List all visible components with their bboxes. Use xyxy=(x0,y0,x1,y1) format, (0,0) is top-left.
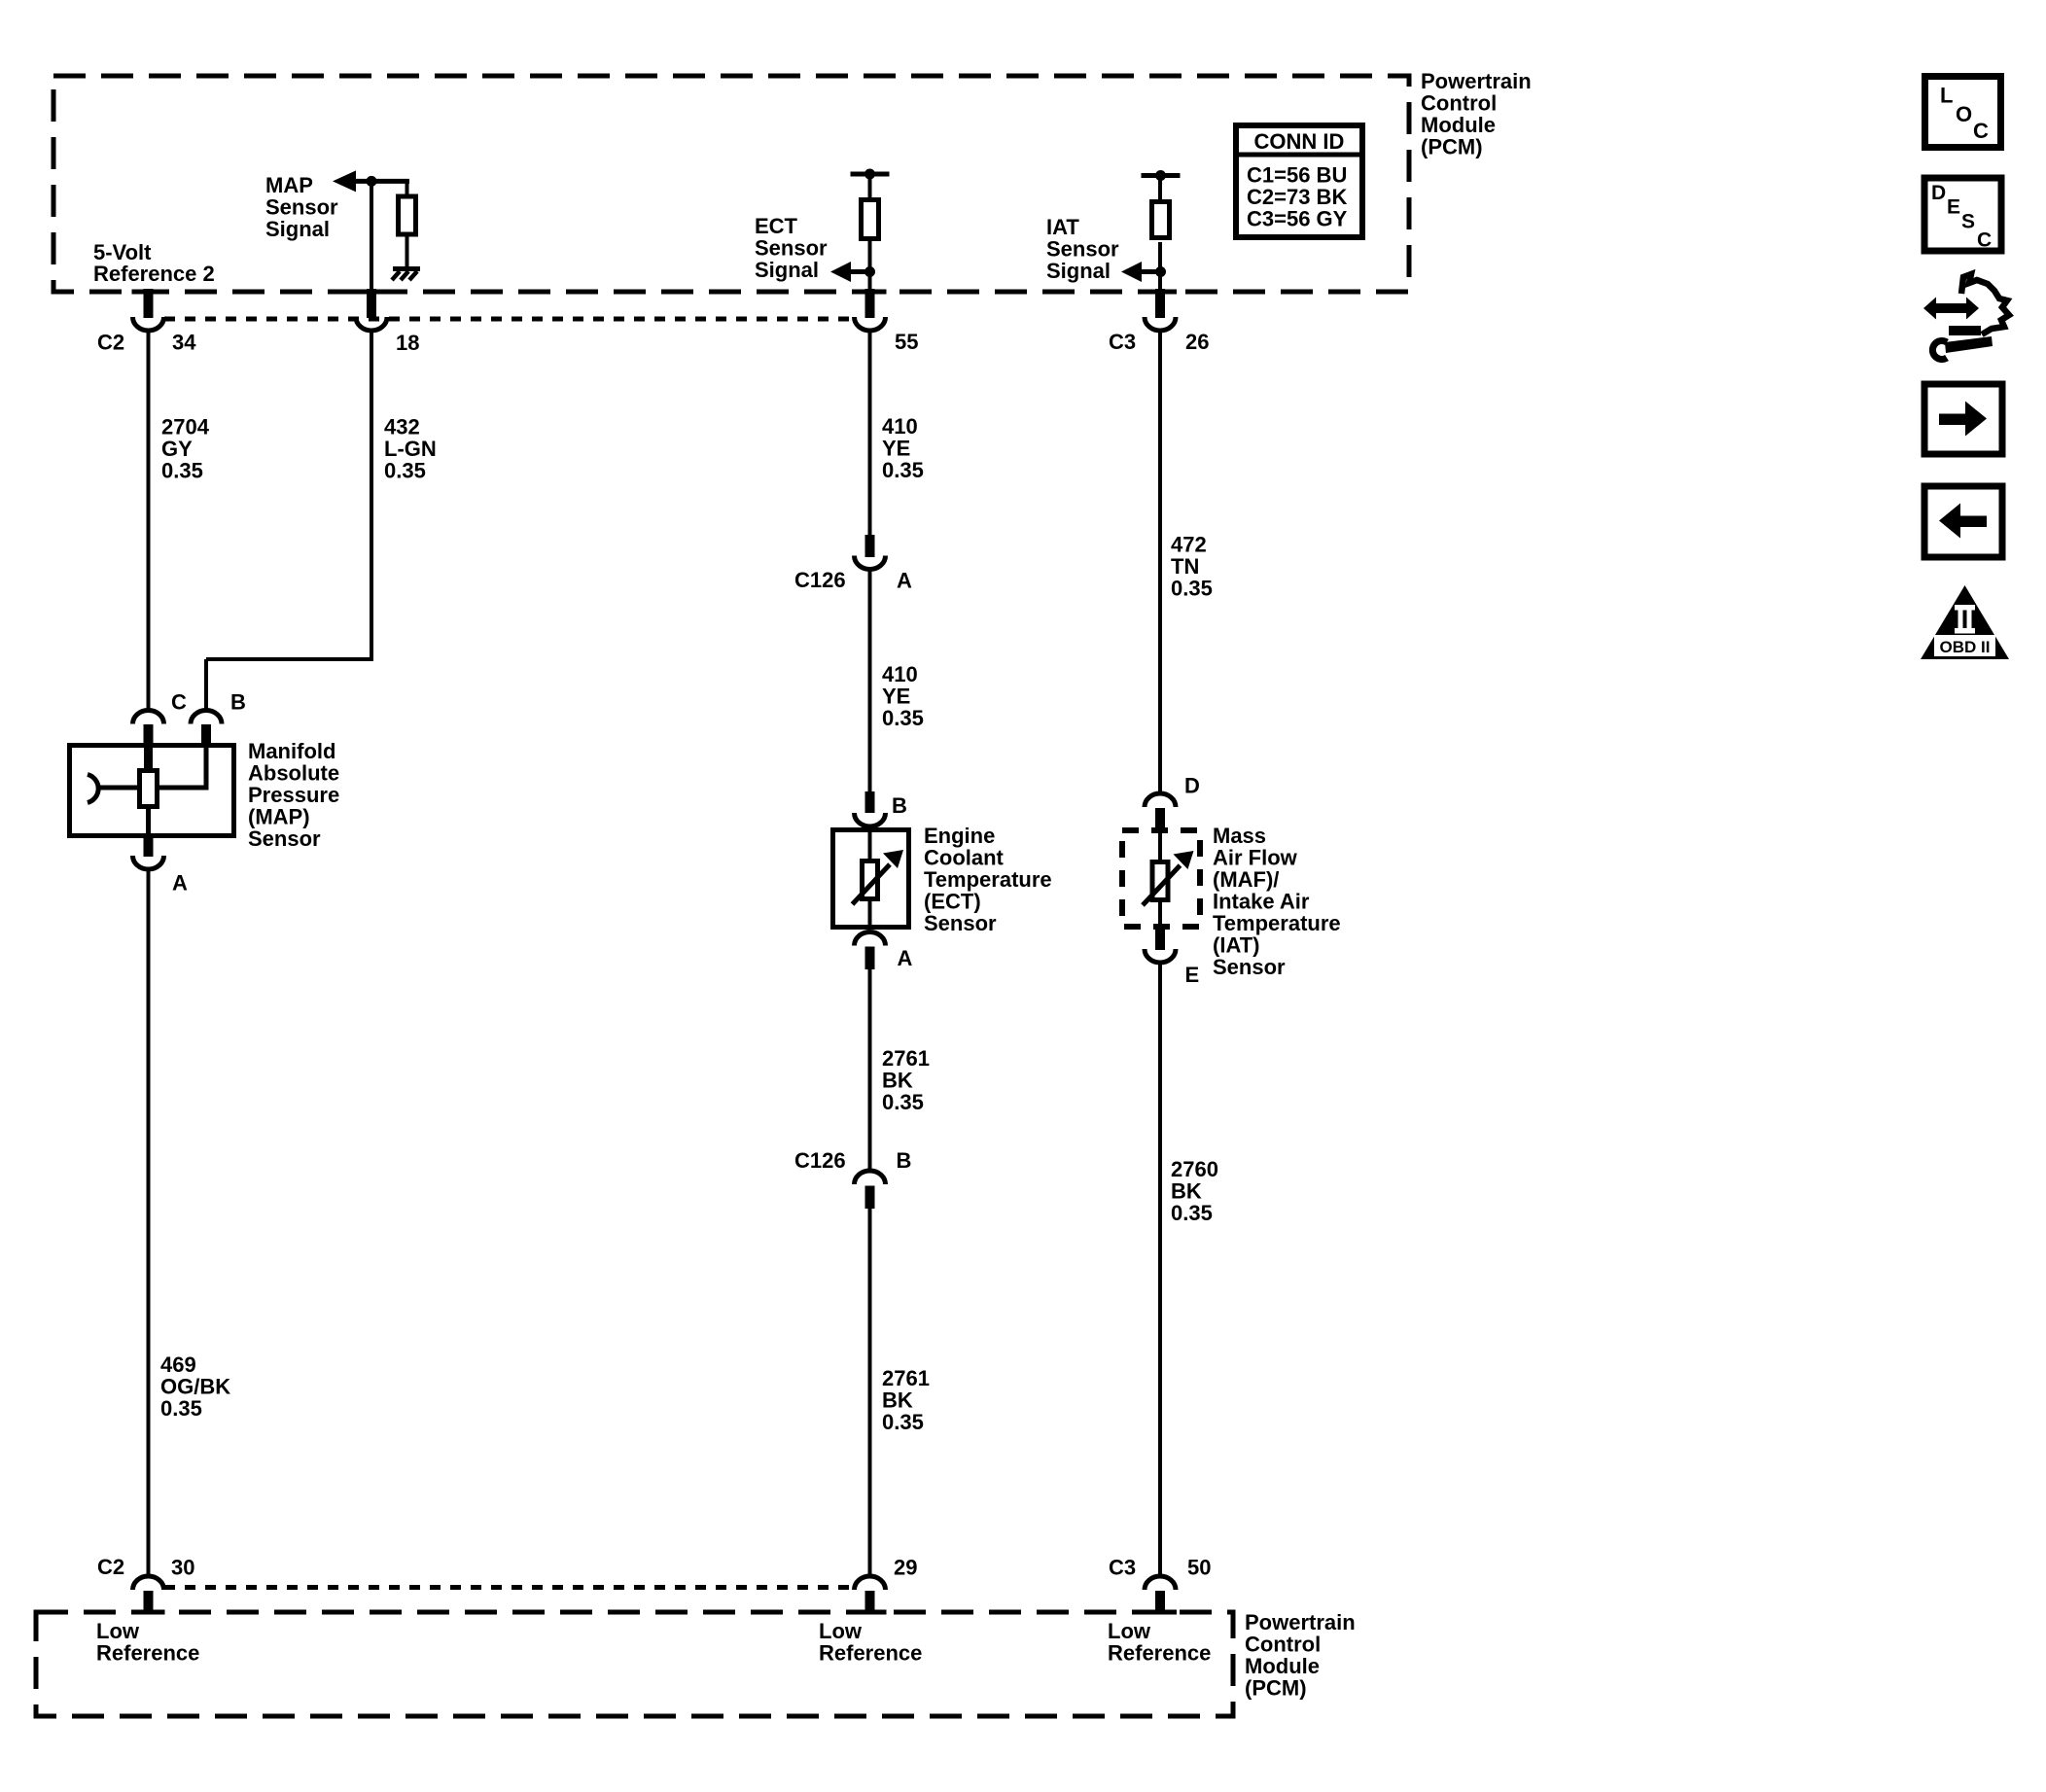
wire 469 OG/BK: MAP pin A down to PCM pin 30 xyxy=(147,869,151,1576)
wire: resistor to ground xyxy=(406,237,409,268)
svg-text:Sensor: Sensor xyxy=(924,911,997,935)
arrow: ECT Sensor Signal (points left) xyxy=(830,262,851,282)
resistor: MAP internal element xyxy=(140,771,158,807)
svg-text:Signal: Signal xyxy=(1046,259,1111,283)
wire: ECT internal T-bar inside PCM xyxy=(851,172,890,177)
svg-text:Reference: Reference xyxy=(1108,1641,1211,1666)
svg-text:C2: C2 xyxy=(97,331,124,355)
connector: MAP pin A (pin + cup) xyxy=(144,838,154,857)
svg-text:D: D xyxy=(1184,774,1200,798)
wire 2704 GY: pin 34 down to MAP sensor pin C xyxy=(147,331,151,710)
svg-text:C: C xyxy=(1977,229,1992,252)
svg-text:Reference: Reference xyxy=(819,1641,922,1666)
svg-text:(MAF)/: (MAF)/ xyxy=(1213,867,1279,892)
pin at PCM top x=1193 xyxy=(1155,289,1165,318)
wire: crescent to MAP internal resistor xyxy=(100,786,139,791)
wire: MAP signal horizontal inside PCM xyxy=(354,179,409,184)
resistor: ECT pull-up inside PCM xyxy=(862,200,879,239)
icon: OBD II triangle xyxy=(1921,585,2009,659)
svg-text:Manifold: Manifold xyxy=(248,739,335,763)
connector: IAT pin D (arch + pin) xyxy=(1145,793,1176,807)
svg-text:410: 410 xyxy=(882,414,918,439)
svg-text:Powertrain: Powertrain xyxy=(1245,1610,1356,1634)
svg-text:472: 472 xyxy=(1171,533,1207,557)
wire: IAT internal T-bar inside PCM xyxy=(1142,173,1181,178)
wire: MAP pin B branch inside box xyxy=(204,743,209,788)
wire: thermistor to IAT pin E xyxy=(1158,902,1162,931)
svg-text:Control: Control xyxy=(1421,91,1497,116)
svg-text:0.35: 0.35 xyxy=(160,1396,202,1421)
svg-text:YE: YE xyxy=(882,685,910,709)
svg-text:Sensor: Sensor xyxy=(265,195,338,220)
junction dot at ECT signal xyxy=(864,266,875,277)
svg-text:Low: Low xyxy=(819,1619,863,1643)
svg-text:410: 410 xyxy=(882,662,918,686)
icon: right-arrow box xyxy=(1924,384,2002,454)
wire: corner down to pull-up resistor xyxy=(406,181,409,195)
icon: service tool (wrench with arrows) xyxy=(1923,274,2009,359)
svg-text:D: D xyxy=(1931,182,1946,204)
ECT sensor box (Engine Coolant Temperature Sensor) xyxy=(833,830,909,928)
pin at PCM top x=894.5 xyxy=(865,289,875,318)
wire: IAT arrow line xyxy=(1140,269,1160,274)
svg-text:GY: GY xyxy=(161,437,193,461)
pin at PCM top x=152.5 xyxy=(144,289,154,318)
svg-text:B: B xyxy=(892,793,907,818)
CONN ID table xyxy=(1236,125,1362,237)
svg-text:E: E xyxy=(1947,196,1960,219)
svg-text:26: 26 xyxy=(1185,330,1209,354)
svg-text:Air Flow: Air Flow xyxy=(1213,846,1298,870)
wire: pin 18 wire from junction down to PCM border xyxy=(370,181,373,292)
thermistor: ECT sensing element xyxy=(863,861,878,899)
svg-text:Control: Control xyxy=(1245,1633,1321,1657)
border dashes at pin crossings (top PCM) xyxy=(132,290,165,295)
svg-text:B: B xyxy=(230,690,246,715)
icon: DESC box xyxy=(1924,178,2001,252)
wire: MAP resistor to pin A xyxy=(146,808,151,838)
svg-text:CONN ID: CONN ID xyxy=(1254,129,1345,154)
resistor: MAP pull-up inside PCM xyxy=(399,196,416,234)
connector: IAT pin E (pin + cup) xyxy=(1155,930,1165,950)
svg-text:55: 55 xyxy=(895,330,918,354)
svg-text:Temperature: Temperature xyxy=(1213,911,1341,935)
PCM module box (Powertrain Control Module, top) xyxy=(53,76,1409,292)
junction dot at IAT signal xyxy=(1155,266,1166,277)
pin at PCM top x=382 xyxy=(367,289,376,318)
connector: MAP pin C (arch) xyxy=(133,711,164,724)
svg-text:0.35: 0.35 xyxy=(882,458,924,482)
svg-text:Engine: Engine xyxy=(924,824,995,848)
svg-text:Intake Air: Intake Air xyxy=(1213,890,1310,914)
resistor: IAT pull-up inside PCM xyxy=(1152,202,1170,238)
wire: inside IAT box, pin D to thermistor xyxy=(1158,829,1162,861)
svg-text:C2: C2 xyxy=(97,1555,124,1579)
wire 410 YE: pin 55 down to C126 A xyxy=(868,331,872,536)
wire: ECT arrow line xyxy=(849,269,870,274)
svg-text:C: C xyxy=(1973,119,1989,143)
svg-text:(PCM): (PCM) xyxy=(1245,1676,1307,1701)
svg-text:C3: C3 xyxy=(1109,330,1136,354)
icon: left-arrow box xyxy=(1924,486,2002,557)
svg-text:50: 50 xyxy=(1187,1556,1211,1580)
svg-text:29: 29 xyxy=(894,1556,917,1580)
wire 410 YE: C126 A down to ECT sensor pin B xyxy=(868,569,872,792)
svg-text:30: 30 xyxy=(171,1556,194,1580)
svg-text:0.35: 0.35 xyxy=(1171,1201,1213,1225)
junction dot on ECT T-bar xyxy=(864,169,875,180)
icon: LOC box xyxy=(1925,77,2001,148)
ground symbol (chassis ground) xyxy=(392,269,420,281)
svg-text:Low: Low xyxy=(1108,1619,1151,1643)
wire 2761 BK: C126 B down to PCM pin 29 xyxy=(868,1209,872,1576)
svg-text:2704: 2704 xyxy=(161,415,210,439)
MAP internal pressure transducer (crescent) xyxy=(88,775,98,803)
svg-text:BK: BK xyxy=(1171,1179,1202,1204)
wire: IAT junction to pin 26 xyxy=(1158,272,1162,293)
svg-text:Pressure: Pressure xyxy=(248,783,339,807)
svg-text:Coolant: Coolant xyxy=(924,846,1005,870)
PCM module box (Powertrain Control Module, bottom) xyxy=(36,1612,1233,1716)
svg-text:C: C xyxy=(171,690,187,715)
connector C126 pin B (arch + pin) xyxy=(855,1171,886,1184)
connector C2 dotted line (top) xyxy=(164,317,854,322)
pin at PCM bottom x=1193 (arch + pin) xyxy=(1145,1576,1176,1590)
svg-text:Reference: Reference xyxy=(96,1641,199,1666)
junction dot on IAT T-bar xyxy=(1155,170,1166,181)
svg-text:C3=56 GY: C3=56 GY xyxy=(1247,207,1348,231)
svg-text:0.35: 0.35 xyxy=(161,459,203,483)
border dashes at pin crossings (bottom PCM) xyxy=(132,1610,165,1615)
wire: T-bar to IAT pull-up resistor xyxy=(1158,176,1162,201)
svg-text:34: 34 xyxy=(172,331,196,355)
svg-text:BK: BK xyxy=(882,1069,913,1093)
svg-text:Mass: Mass xyxy=(1213,824,1266,848)
svg-text:(IAT): (IAT) xyxy=(1213,933,1259,958)
svg-text:Module: Module xyxy=(1421,113,1496,137)
svg-text:C3: C3 xyxy=(1109,1556,1136,1580)
wire: ECT resistor to junction xyxy=(868,241,872,272)
svg-text:2761: 2761 xyxy=(882,1366,930,1390)
svg-text:O: O xyxy=(1956,102,1972,126)
svg-text:A: A xyxy=(898,946,913,970)
svg-text:MAP: MAP xyxy=(265,173,313,197)
svg-text:OG/BK: OG/BK xyxy=(160,1375,230,1399)
svg-text:Reference 2: Reference 2 xyxy=(93,262,215,286)
svg-text:(MAP): (MAP) xyxy=(248,805,310,829)
pin at PCM bottom x=894.5 (arch + pin) xyxy=(855,1576,886,1590)
svg-text:C126: C126 xyxy=(794,568,846,592)
svg-text:IAT: IAT xyxy=(1046,215,1079,239)
arrow: IAT Sensor Signal (points left) xyxy=(1121,262,1142,282)
svg-text:2761: 2761 xyxy=(882,1046,930,1071)
pin at PCM bottom x=152.5 (arch + pin) xyxy=(133,1576,164,1590)
svg-text:C126: C126 xyxy=(794,1148,846,1173)
wire 2760 BK: IAT pin E down to PCM pin 50 xyxy=(1158,963,1162,1576)
svg-text:YE: YE xyxy=(882,437,910,461)
svg-text:2760: 2760 xyxy=(1171,1157,1218,1181)
wire: ECT junction to pin 55 xyxy=(868,272,872,293)
svg-text:469: 469 xyxy=(160,1353,196,1377)
svg-text:Signal: Signal xyxy=(265,217,330,241)
svg-text:Absolute: Absolute xyxy=(248,761,339,786)
connector: ECT pin A (arch + pin) xyxy=(855,932,886,946)
connector dotted line (bottom) xyxy=(164,1585,854,1590)
svg-text:Sensor: Sensor xyxy=(248,826,321,851)
svg-text:BK: BK xyxy=(882,1388,913,1413)
svg-text:A: A xyxy=(897,569,912,593)
svg-text:Sensor: Sensor xyxy=(1213,955,1286,979)
svg-text:ECT: ECT xyxy=(755,214,798,238)
svg-text:Powertrain: Powertrain xyxy=(1421,69,1532,93)
MAP sensor box (Manifold Absolute Pressure Sensor) xyxy=(70,746,234,836)
svg-text:(PCM): (PCM) xyxy=(1421,135,1483,159)
wire: thermistor to ECT pin A xyxy=(868,901,872,930)
svg-text:0.35: 0.35 xyxy=(882,1410,924,1434)
wire: inside ECT box, pin B to thermistor xyxy=(868,827,872,860)
svg-text:0.35: 0.35 xyxy=(384,459,426,483)
svg-text:Temperature: Temperature xyxy=(924,867,1052,892)
svg-text:Low: Low xyxy=(96,1619,140,1643)
svg-text:0.35: 0.35 xyxy=(882,1090,924,1114)
connector: MAP pin B (arch) xyxy=(191,711,222,724)
wire 432 L-GN: pin 18 down, over to MAP pin B xyxy=(370,331,373,659)
wire: IAT resistor to junction xyxy=(1158,242,1162,272)
svg-text:(ECT): (ECT) xyxy=(924,890,981,914)
svg-text:S: S xyxy=(1961,211,1975,233)
svg-text:18: 18 xyxy=(396,331,419,355)
svg-text:OBD II: OBD II xyxy=(1940,638,1991,656)
svg-text:0.35: 0.35 xyxy=(1171,577,1213,601)
svg-text:Sensor: Sensor xyxy=(1046,237,1119,262)
svg-text:Module: Module xyxy=(1245,1654,1320,1678)
wire 472 TN: pin 26 down to IAT sensor pin D xyxy=(1158,331,1162,793)
svg-text:B: B xyxy=(897,1148,912,1173)
svg-text:Signal: Signal xyxy=(755,258,819,282)
svg-text:L-GN: L-GN xyxy=(384,437,437,461)
connector: ECT pin B (pin + cup) xyxy=(865,791,875,813)
thermistor: IAT sensing element xyxy=(1152,862,1168,900)
svg-text:0.35: 0.35 xyxy=(882,706,924,730)
junction dot at MAP signal / pin 18 wire xyxy=(367,176,377,187)
MAF/IAT sensor dashed box (Mass Air Flow / Intake Air Temperature Sensor) xyxy=(1122,830,1200,927)
svg-text:E: E xyxy=(1185,963,1200,987)
svg-text:TN: TN xyxy=(1171,554,1199,579)
wire 2761 BK: ECT pin A down to C126 B xyxy=(868,969,872,1171)
connector C126 pin A (pin + cup) xyxy=(865,535,875,557)
arrow: MAP Sensor Signal (points left) xyxy=(333,170,356,192)
svg-text:432: 432 xyxy=(384,415,420,439)
svg-text:L: L xyxy=(1940,84,1953,108)
svg-text:Sensor: Sensor xyxy=(755,236,828,261)
svg-text:C2=73 BK: C2=73 BK xyxy=(1247,185,1347,209)
svg-text:C1=56 BU: C1=56 BU xyxy=(1247,163,1347,188)
wire: MAP pin C into pressure element xyxy=(144,743,153,769)
wire: T-bar to ECT pull-up resistor xyxy=(868,174,872,198)
svg-text:A: A xyxy=(172,871,188,896)
